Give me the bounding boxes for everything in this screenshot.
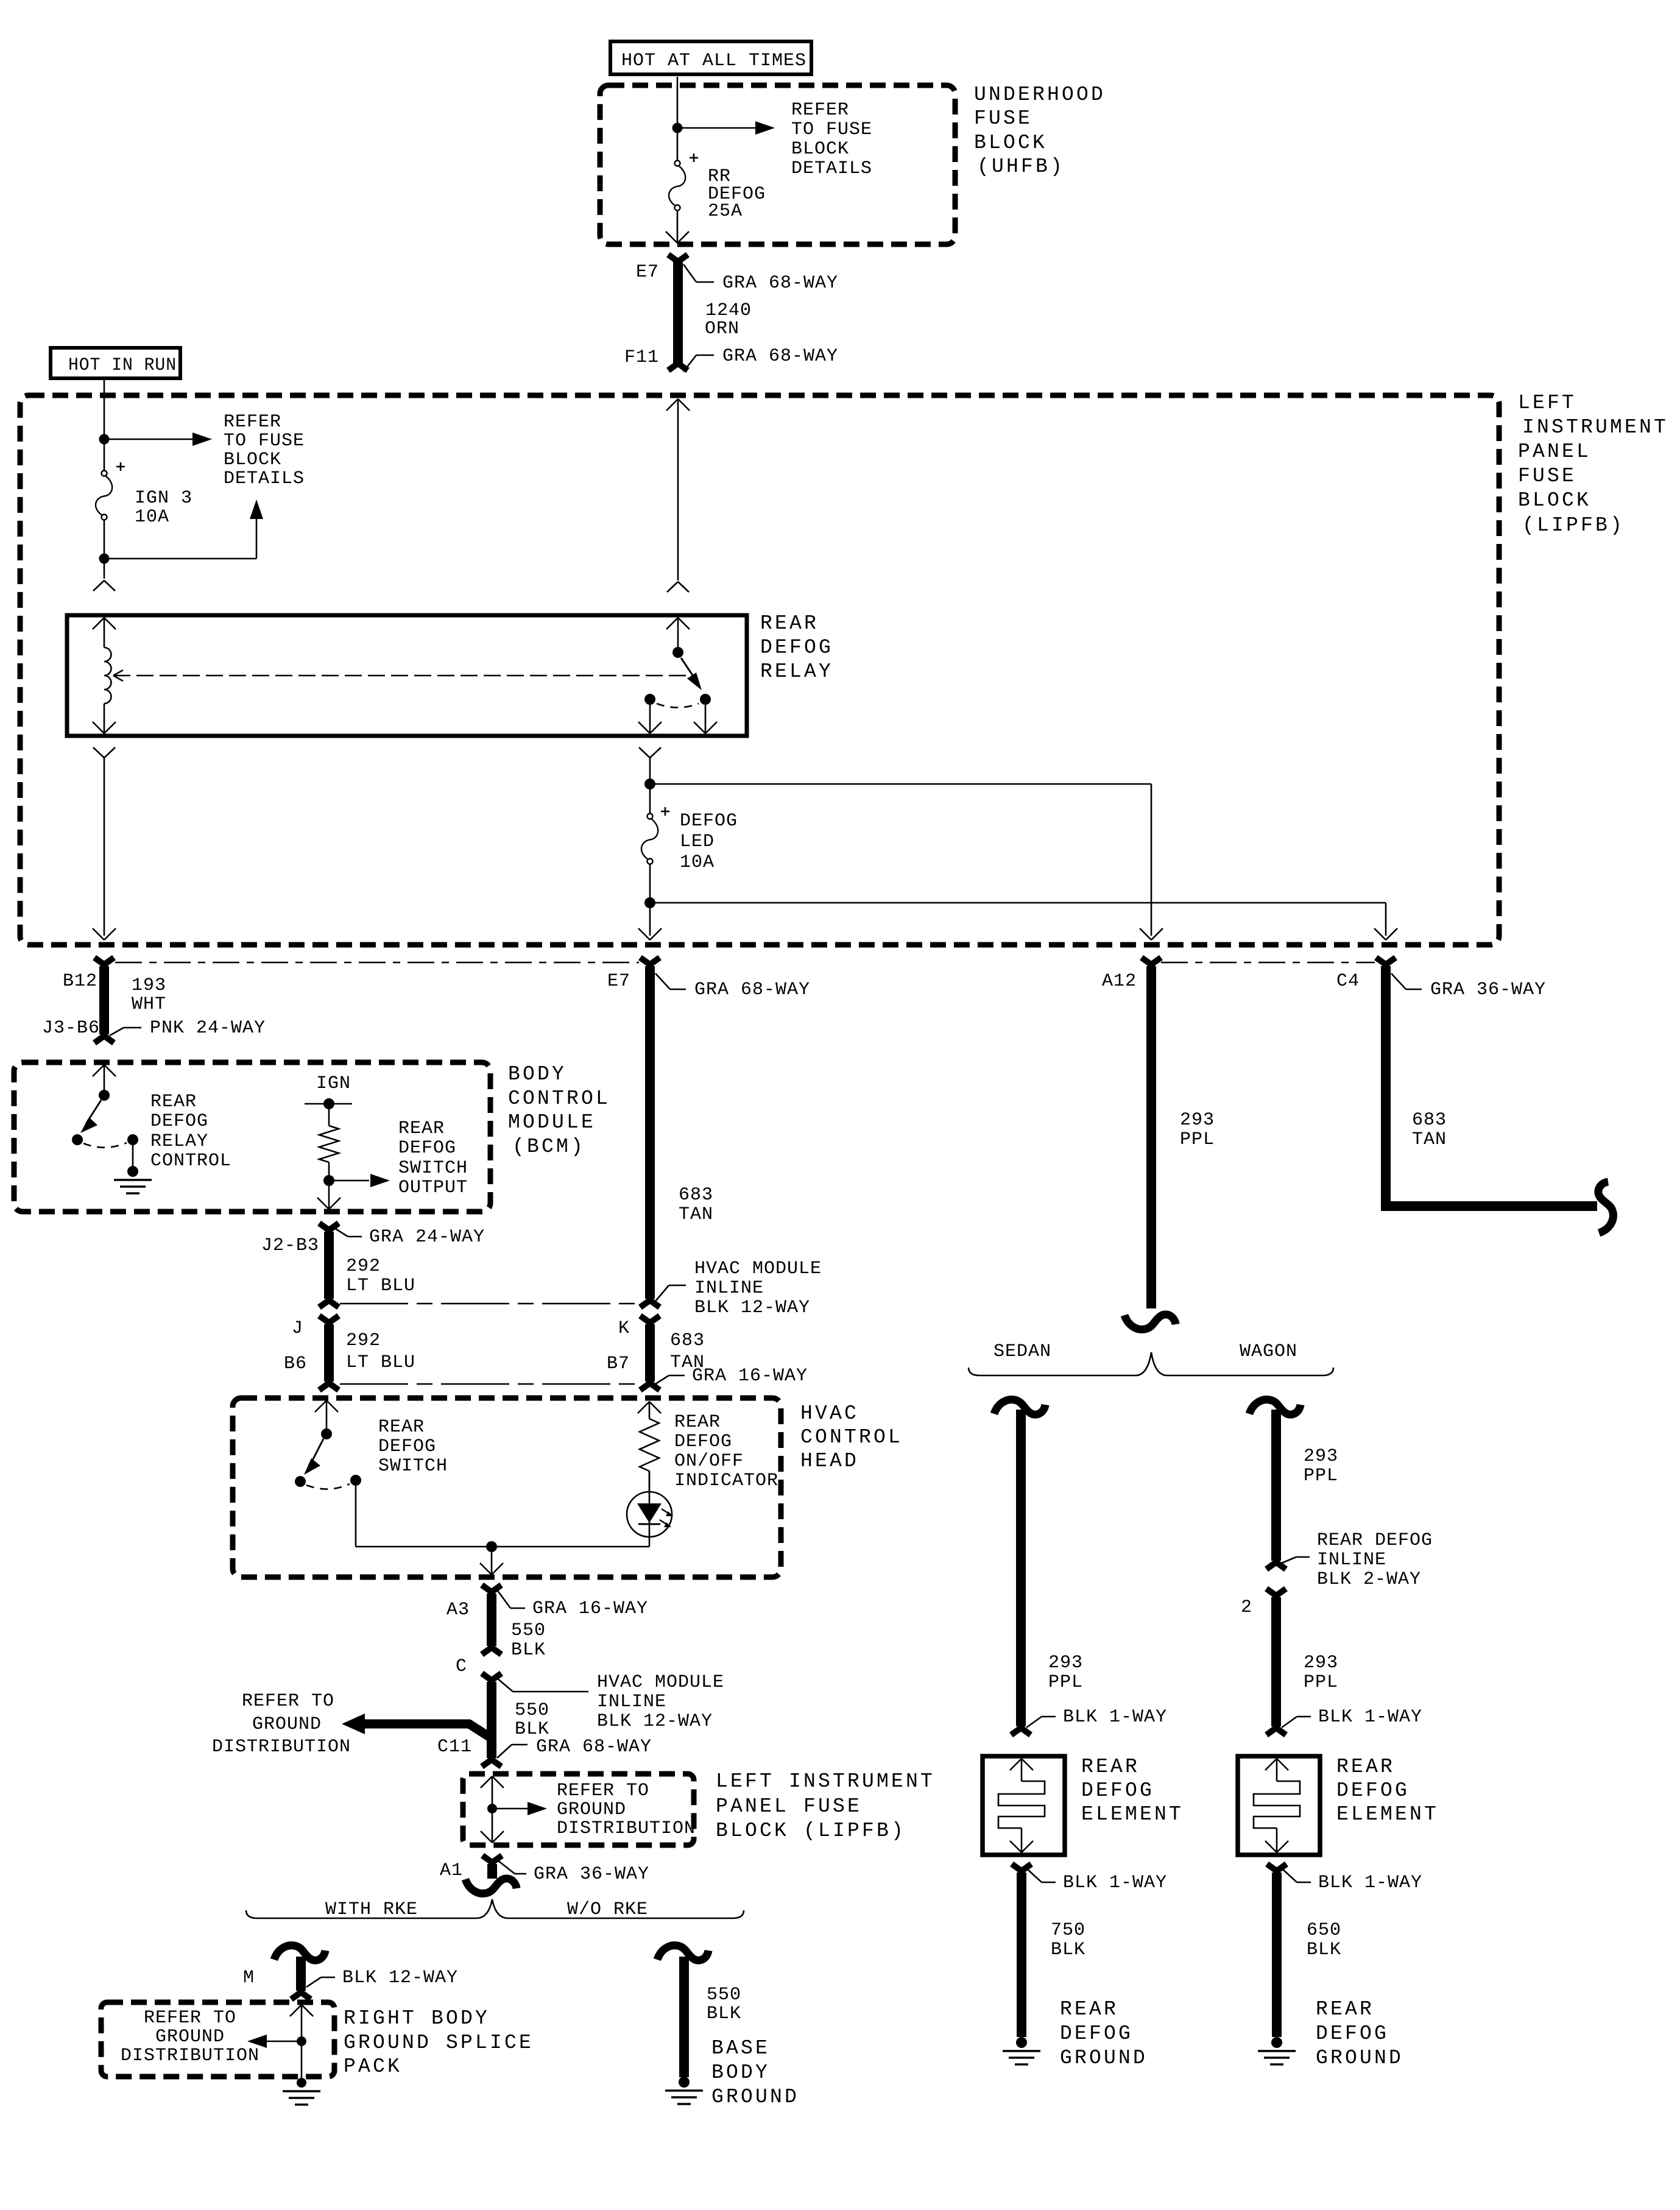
svg-text:DEFOG: DEFOG bbox=[1060, 2022, 1133, 2045]
svg-text:1240: 1240 bbox=[705, 300, 752, 321]
svg-text:LEFT INSTRUMENT: LEFT INSTRUMENT bbox=[716, 1770, 935, 1793]
svg-text:INSTRUMENT: INSTRUMENT bbox=[1522, 416, 1668, 439]
svg-text:(LIPFB): (LIPFB) bbox=[1522, 514, 1625, 537]
svg-text:J3-B6: J3-B6 bbox=[42, 1018, 100, 1039]
svg-text:293: 293 bbox=[1048, 1653, 1083, 1673]
svg-text:293: 293 bbox=[1304, 1653, 1338, 1673]
svg-text:HVAC: HVAC bbox=[800, 1402, 859, 1425]
svg-text:B7: B7 bbox=[607, 1354, 630, 1374]
svg-text:A12: A12 bbox=[1102, 971, 1137, 992]
svg-text:GRA 68-WAY: GRA 68-WAY bbox=[536, 1737, 652, 1757]
svg-text:C4: C4 bbox=[1336, 971, 1360, 992]
svg-text:J2-B3: J2-B3 bbox=[261, 1235, 319, 1256]
svg-text:TAN: TAN bbox=[679, 1204, 713, 1225]
svg-text:GROUND: GROUND bbox=[1060, 2047, 1148, 2069]
svg-text:E7: E7 bbox=[607, 971, 630, 992]
svg-text:E7: E7 bbox=[636, 262, 659, 283]
svg-text:DEFOG: DEFOG bbox=[1316, 2022, 1389, 2045]
svg-text:PANEL: PANEL bbox=[1518, 440, 1591, 463]
svg-text:750: 750 bbox=[1051, 1920, 1085, 1941]
svg-text:650: 650 bbox=[1307, 1920, 1341, 1941]
svg-text:BLK 2-WAY: BLK 2-WAY bbox=[1317, 1569, 1421, 1590]
svg-text:J: J bbox=[292, 1318, 303, 1339]
svg-text:BLOCK (LIPFB): BLOCK (LIPFB) bbox=[716, 1820, 906, 1842]
svg-text:REFER TO: REFER TO bbox=[242, 1691, 334, 1712]
svg-text:TO FUSE: TO FUSE bbox=[224, 431, 305, 451]
svg-text:INLINE: INLINE bbox=[694, 1278, 764, 1299]
svg-text:RELAY: RELAY bbox=[150, 1131, 208, 1152]
svg-text:A1: A1 bbox=[440, 1860, 463, 1881]
svg-text:REAR: REAR bbox=[1060, 1998, 1118, 2021]
svg-text:SWITCH: SWITCH bbox=[398, 1158, 468, 1179]
svg-text:REAR: REAR bbox=[1081, 1756, 1140, 1778]
svg-text:550: 550 bbox=[707, 1985, 741, 2005]
svg-text:BLK 1-WAY: BLK 1-WAY bbox=[1063, 1707, 1167, 1728]
svg-text:HOT IN RUN: HOT IN RUN bbox=[68, 355, 177, 376]
svg-text:F11: F11 bbox=[624, 347, 659, 368]
svg-text:GRA 36-WAY: GRA 36-WAY bbox=[534, 1864, 649, 1885]
svg-text:(UHFB): (UHFB) bbox=[977, 155, 1065, 178]
svg-text:GROUND: GROUND bbox=[557, 1799, 626, 1820]
svg-text:BODY: BODY bbox=[711, 2061, 770, 2084]
svg-text:BLOCK: BLOCK bbox=[1518, 489, 1591, 512]
svg-text:REAR: REAR bbox=[378, 1417, 425, 1438]
svg-text:GRA 16-WAY: GRA 16-WAY bbox=[692, 1366, 808, 1386]
svg-text:10A: 10A bbox=[135, 507, 169, 528]
svg-text:M: M bbox=[243, 1968, 255, 1988]
svg-text:SEDAN: SEDAN bbox=[994, 1341, 1051, 1362]
svg-text:BASE: BASE bbox=[711, 2037, 770, 2060]
svg-text:REAR: REAR bbox=[674, 1412, 721, 1433]
svg-text:ELEMENT: ELEMENT bbox=[1081, 1803, 1184, 1826]
svg-text:WITH RKE: WITH RKE bbox=[325, 1899, 418, 1920]
svg-text:PPL: PPL bbox=[1304, 1672, 1338, 1693]
svg-text:ORN: ORN bbox=[705, 319, 739, 339]
svg-text:BLK 1-WAY: BLK 1-WAY bbox=[1318, 1873, 1422, 1893]
svg-text:REFER TO: REFER TO bbox=[557, 1781, 649, 1801]
svg-text:WAGON: WAGON bbox=[1240, 1341, 1297, 1362]
svg-text:DETAILS: DETAILS bbox=[224, 468, 305, 489]
svg-text:BLK: BLK bbox=[707, 2003, 741, 2024]
svg-text:REFER: REFER bbox=[224, 412, 281, 432]
svg-text:B6: B6 bbox=[284, 1354, 307, 1374]
svg-text:PPL: PPL bbox=[1304, 1466, 1338, 1486]
svg-text:UNDERHOOD: UNDERHOOD bbox=[974, 83, 1106, 106]
svg-text:DISTRIBUTION: DISTRIBUTION bbox=[212, 1737, 351, 1757]
svg-text:10A: 10A bbox=[680, 852, 715, 873]
svg-text:(BCM): (BCM) bbox=[512, 1135, 585, 1158]
svg-text:GROUND SPLICE: GROUND SPLICE bbox=[344, 2032, 534, 2054]
svg-text:GRA 16-WAY: GRA 16-WAY bbox=[532, 1598, 648, 1619]
svg-text:DEFOG: DEFOG bbox=[1081, 1779, 1154, 1802]
svg-text:550: 550 bbox=[515, 1700, 549, 1721]
svg-text:BLOCK: BLOCK bbox=[791, 139, 849, 160]
svg-text:IGN 3: IGN 3 bbox=[135, 488, 192, 509]
svg-text:K: K bbox=[618, 1318, 630, 1339]
svg-text:GROUND: GROUND bbox=[711, 2086, 799, 2108]
svg-text:PACK: PACK bbox=[344, 2055, 402, 2078]
svg-text:PPL: PPL bbox=[1048, 1672, 1083, 1693]
svg-text:HOT AT ALL TIMES: HOT AT ALL TIMES bbox=[621, 51, 806, 71]
svg-text:HEAD: HEAD bbox=[800, 1450, 859, 1472]
svg-text:LT BLU: LT BLU bbox=[346, 1276, 415, 1296]
svg-text:BLOCK: BLOCK bbox=[974, 132, 1047, 154]
svg-text:DISTRIBUTION: DISTRIBUTION bbox=[557, 1818, 696, 1839]
svg-text:REAR: REAR bbox=[398, 1118, 445, 1139]
svg-text:REFER TO: REFER TO bbox=[144, 2008, 236, 2028]
svg-text:REAR DEFOG: REAR DEFOG bbox=[1317, 1530, 1433, 1551]
svg-text:REAR: REAR bbox=[1336, 1756, 1395, 1778]
svg-text:292: 292 bbox=[346, 1256, 381, 1277]
svg-text:BLK: BLK bbox=[1051, 1940, 1085, 1960]
svg-text:DETAILS: DETAILS bbox=[791, 158, 872, 179]
svg-text:683: 683 bbox=[679, 1185, 713, 1206]
svg-text:DEFOG: DEFOG bbox=[378, 1436, 436, 1457]
svg-text:GROUND: GROUND bbox=[155, 2027, 225, 2047]
svg-text:REAR: REAR bbox=[150, 1092, 197, 1112]
svg-text:CONTROL: CONTROL bbox=[508, 1087, 610, 1110]
svg-text:BLK 12-WAY: BLK 12-WAY bbox=[597, 1711, 713, 1732]
svg-text:PPL: PPL bbox=[1180, 1129, 1215, 1150]
svg-text:B12: B12 bbox=[63, 971, 97, 992]
svg-text:INLINE: INLINE bbox=[1317, 1550, 1386, 1570]
svg-text:2: 2 bbox=[1241, 1597, 1252, 1618]
svg-text:BLK: BLK bbox=[1307, 1940, 1341, 1960]
svg-text:MODULE: MODULE bbox=[508, 1111, 596, 1134]
svg-text:193: 193 bbox=[132, 975, 166, 996]
svg-text:W/O RKE: W/O RKE bbox=[567, 1899, 648, 1920]
svg-text:DEFOG: DEFOG bbox=[680, 811, 738, 831]
svg-text:DEFOG: DEFOG bbox=[674, 1432, 732, 1452]
svg-text:293: 293 bbox=[1304, 1446, 1338, 1467]
svg-text:DEFOG: DEFOG bbox=[398, 1138, 456, 1159]
svg-text:GROUND: GROUND bbox=[252, 1714, 322, 1735]
svg-text:LED: LED bbox=[680, 831, 715, 852]
svg-text:SWITCH: SWITCH bbox=[378, 1456, 448, 1477]
svg-text:FUSE: FUSE bbox=[1518, 465, 1576, 487]
svg-text:683: 683 bbox=[670, 1330, 705, 1351]
svg-text:GRA 68-WAY: GRA 68-WAY bbox=[694, 980, 810, 1000]
svg-text:292: 292 bbox=[346, 1330, 381, 1351]
svg-text:INDICATOR: INDICATOR bbox=[674, 1470, 778, 1491]
svg-text:REFER: REFER bbox=[791, 100, 849, 121]
svg-text:TAN: TAN bbox=[1412, 1129, 1447, 1150]
svg-text:C: C bbox=[456, 1656, 467, 1677]
svg-text:ON/OFF: ON/OFF bbox=[674, 1451, 744, 1472]
svg-text:BLK 1-WAY: BLK 1-WAY bbox=[1318, 1707, 1422, 1728]
svg-text:BLK: BLK bbox=[511, 1640, 546, 1661]
svg-text:GRA 24-WAY: GRA 24-WAY bbox=[369, 1227, 485, 1248]
svg-text:RIGHT BODY: RIGHT BODY bbox=[344, 2007, 490, 2030]
svg-text:293: 293 bbox=[1180, 1110, 1215, 1131]
svg-text:CONTROL: CONTROL bbox=[800, 1426, 903, 1449]
svg-text:LT BLU: LT BLU bbox=[346, 1352, 415, 1373]
svg-text:PNK 24-WAY: PNK 24-WAY bbox=[150, 1018, 266, 1039]
svg-text:OUTPUT: OUTPUT bbox=[398, 1177, 468, 1198]
svg-text:GRA 68-WAY: GRA 68-WAY bbox=[722, 273, 838, 294]
svg-text:HVAC MODULE: HVAC MODULE bbox=[694, 1259, 822, 1279]
svg-text:TO FUSE: TO FUSE bbox=[791, 119, 872, 140]
svg-text:ELEMENT: ELEMENT bbox=[1336, 1803, 1439, 1826]
svg-text:DEFOG: DEFOG bbox=[760, 637, 833, 659]
svg-text:25A: 25A bbox=[708, 201, 743, 222]
svg-text:550: 550 bbox=[511, 1620, 546, 1641]
svg-text:BLK 1-WAY: BLK 1-WAY bbox=[1063, 1873, 1167, 1893]
svg-text:GROUND: GROUND bbox=[1316, 2047, 1403, 2069]
svg-text:A3: A3 bbox=[446, 1600, 470, 1620]
svg-text:PANEL FUSE: PANEL FUSE bbox=[716, 1795, 862, 1818]
svg-text:FUSE: FUSE bbox=[974, 107, 1032, 130]
svg-text:BLK 12-WAY: BLK 12-WAY bbox=[342, 1968, 458, 1988]
svg-text:REAR: REAR bbox=[1316, 1998, 1374, 2021]
svg-text:683: 683 bbox=[1412, 1110, 1447, 1131]
svg-text:WHT: WHT bbox=[132, 994, 166, 1015]
svg-text:BLK 12-WAY: BLK 12-WAY bbox=[694, 1297, 810, 1318]
svg-text:CONTROL: CONTROL bbox=[150, 1151, 231, 1171]
svg-text:BLOCK: BLOCK bbox=[224, 450, 281, 470]
svg-text:LEFT: LEFT bbox=[1518, 392, 1576, 414]
svg-text:HVAC MODULE: HVAC MODULE bbox=[597, 1672, 724, 1693]
svg-text:DEFOG: DEFOG bbox=[150, 1111, 208, 1132]
svg-text:IGN: IGN bbox=[316, 1073, 351, 1094]
svg-text:C11: C11 bbox=[437, 1737, 472, 1757]
svg-text:REAR: REAR bbox=[760, 612, 819, 635]
svg-text:DEFOG: DEFOG bbox=[1336, 1779, 1410, 1802]
svg-text:INLINE: INLINE bbox=[597, 1692, 666, 1712]
svg-text:GRA 36-WAY: GRA 36-WAY bbox=[1430, 980, 1546, 1000]
svg-text:BODY: BODY bbox=[508, 1063, 566, 1086]
svg-text:RELAY: RELAY bbox=[760, 660, 833, 683]
svg-text:DISTRIBUTION: DISTRIBUTION bbox=[121, 2046, 259, 2066]
svg-text:GRA 68-WAY: GRA 68-WAY bbox=[722, 346, 838, 367]
